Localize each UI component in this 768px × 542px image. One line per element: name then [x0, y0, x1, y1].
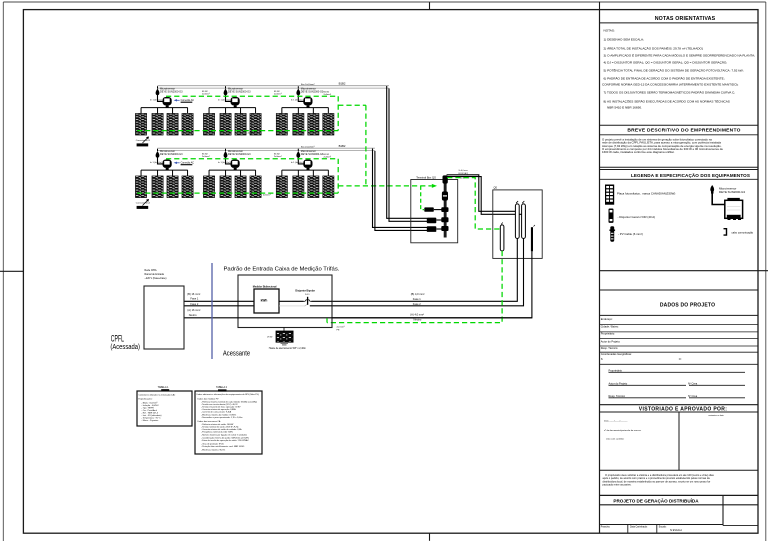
green riser row 2	[337, 159, 339, 193]
PE green wire QD to meter	[327, 251, 502, 323]
svg-text:1600 W cada, instalados confor: 1600 W cada, instalados conforme este di…	[602, 150, 675, 154]
string green PE line row 1 (inverter level)	[166, 95, 338, 97]
PV group A2 (modules M5-M8 + microinverter INV-2)	[203, 86, 261, 135]
PV group B1 (modules M13-M16 + microinverter INV-4)	[135, 149, 193, 198]
kWh meter box	[254, 289, 279, 313]
section divider / fold line	[600, 270, 768, 272]
phase wires meter to kWh	[184, 300, 254, 302]
BREVE DESCRITIVO section	[600, 124, 759, 126]
svg-text:Nº Crea: Nº Crea	[688, 394, 698, 398]
svg-text:- Dimensões e peso aproximado: - Dimensões e peso aproximado: 1,70 x 1,…	[201, 416, 243, 419]
svg-text:CPFL: CPFL	[111, 333, 124, 343]
disclaimer paragraph	[603, 473, 715, 487]
svg-text:- Faixa de tensão de operação: - Faixa de tensão de operação da saída: …	[201, 439, 249, 442]
svg-text:- Corrente de curto-circuito:: - Corrente de curto-circuito: 9,45A	[201, 410, 232, 413]
svg-text:Haste de aterramento 5/8" x 2,: Haste de aterramento 5/8" x 2,40m	[269, 347, 306, 350]
service entrance labels	[145, 269, 167, 280]
svg-text:2x 6,0 mm²: 2x 6,0 mm²	[459, 169, 469, 172]
svg-text:B1B2: B1B2	[339, 82, 346, 86]
legend cable icon	[609, 226, 615, 241]
svg-text:Placa fotovoltaica , marca CAN: Placa fotovoltaica , marca CANADIAN(330W…	[617, 192, 675, 196]
green PE link terminal box to QD	[447, 178, 500, 229]
svg-text:TABELA 2: TABELA 2	[216, 386, 228, 389]
svg-text:Conexão AC: Conexão AC	[181, 162, 195, 165]
QD box outline	[493, 190, 542, 259]
NOTAS header band	[600, 22, 759, 24]
svg-text:assinatura e data: assinatura e data	[708, 414, 724, 417]
string green PE line row 2 (module level)	[137, 192, 338, 194]
svg-text:Resp. Técnico: Resp. Técnico	[609, 394, 626, 398]
svg-text:(B) 4,0 mm²: (B) 4,0 mm²	[411, 292, 425, 296]
neutral bar	[531, 227, 533, 251]
svg-text:Data Carimbada:: Data Carimbada:	[630, 525, 648, 528]
meter box outline	[238, 275, 332, 328]
svg-text:Prancha:: Prancha:	[601, 525, 611, 528]
neutral wire through meter	[184, 317, 532, 319]
svg-text:Dados dos módulos FV:: Dados dos módulos FV:	[198, 398, 220, 400]
svg-text:2x4mm²: 2x4mm²	[274, 93, 282, 96]
svg-text:Bus 2x4,0mm²: Bus 2x4,0mm²	[301, 83, 315, 86]
table 2 box	[195, 391, 262, 454]
phase 1 wire QD to meter	[332, 239, 517, 302]
phase wires breaker to box edge	[312, 300, 333, 302]
svg-text:DJ-1: DJ-1	[305, 294, 310, 296]
svg-text:Cidade / Bairro:: Cidade / Bairro:	[601, 325, 619, 329]
svg-text:(A) 16 mm²: (A) 16 mm²	[187, 308, 200, 312]
svg-text:Data ____/____/______: Data ____/____/______	[604, 420, 628, 423]
svg-text:nº do documento/protocolo do a: nº do documento/protocolo do acesso:	[604, 429, 642, 432]
svg-text:BREVE DESCRITIVO DO EMPREENDIM: BREVE DESCRITIVO DO EMPREENDIMENTO	[627, 127, 740, 133]
table 1 box	[137, 391, 192, 426]
bottom cells	[600, 524, 724, 526]
svg-text:7) TODOS OS DISJUNTORES SERÃO: 7) TODOS OS DISJUNTORES SERÃO TERMOMAGNÉ…	[604, 90, 736, 95]
svg-text:cabo comunicação: cabo comunicação	[732, 230, 754, 234]
svg-text:5) POTÊNCIA TOTAL FINAL DE GER: 5) POTÊNCIA TOTAL FINAL DE GERAÇÃO DO SI…	[604, 68, 744, 73]
svg-text:DEYE SUN2000-G3: DEYE SUN2000-G3	[719, 190, 745, 194]
svg-text:Resp. Técnico:: Resp. Técnico:	[601, 346, 619, 350]
svg-text:NBR 5410 E NBR 16690.: NBR 5410 E NBR 16690.	[607, 106, 642, 110]
svg-text:Neutro: Neutro	[189, 313, 197, 317]
property boundary	[211, 263, 213, 359]
svg-text:Proprietário:: Proprietário:	[601, 332, 615, 336]
svg-text:NOTAS ORIENTATIVAS: NOTAS ORIENTATIVAS	[655, 16, 716, 22]
LEGENDA section	[600, 166, 759, 168]
svg-text:kWh: kWh	[261, 299, 268, 303]
svg-text:Dados dos inversores CA:: Dados dos inversores CA:	[198, 420, 222, 423]
svg-text:Padrão de Entrada Caixa de Med: Padrão de Entrada Caixa de Medição Trifá…	[224, 266, 340, 272]
green feeder to terminal box	[338, 185, 432, 187]
svg-text:Condutores utilizados na insta: Condutores utilizados na instalação (CA)…	[139, 393, 176, 396]
blue pointer to INV-1	[176, 99, 180, 101]
busbar top connector	[443, 175, 448, 183]
svg-text:Disjuntor Bipolar: Disjuntor Bipolar	[295, 290, 314, 293]
svg-text:Especificações:: Especificações:	[139, 397, 153, 400]
busbar	[444, 177, 447, 238]
fold mark bottom center	[429, 533, 431, 541]
PV group A1 (modules M1-M4 + microinverter INV-1)	[135, 86, 193, 135]
breaker DJ-1 contacts	[304, 299, 307, 301]
terminal box outline	[411, 180, 458, 243]
AC bus row 1 (B1,B2)	[158, 85, 389, 87]
fold mark top at title block	[599, 2, 601, 10]
svg-text:PROJETO DE GERAÇÃO DISTRIBUÍDA: PROJETO DE GERAÇÃO DISTRIBUÍDA	[613, 497, 699, 504]
svg-text:Fase 2: Fase 2	[413, 302, 421, 306]
svg-text:8) AS INSTALAÇÕES SERÃO EXECUT: 8) AS INSTALAÇÕES SERÃO EXECUTADAS DE AC…	[604, 99, 730, 104]
svg-text:(B) 16 mm²: (B) 16 mm²	[187, 292, 200, 296]
svg-text:Terminal Box QG: Terminal Box QG	[416, 175, 436, 179]
breaker pole 1	[515, 204, 519, 239]
busbar fuse	[442, 191, 448, 200]
svg-text:4x6mm²: 4x6mm²	[263, 193, 271, 196]
svg-text:2x4mm²: 2x4mm²	[202, 93, 210, 96]
neutral wire QD to meter	[332, 251, 532, 317]
svg-text:6) PADRÃO DE ENTRADA DE ACORDO: 6) PADRÃO DE ENTRADA DE ACORDO COM O PAD…	[604, 76, 725, 81]
VISTORIADO band	[600, 404, 759, 406]
svg-text:~220 V (Fase+Fase): ~220 V (Fase+Fase)	[145, 277, 167, 280]
legend comm cable item	[724, 229, 727, 235]
svg-text:O:: O:	[679, 357, 682, 361]
PE plug connector	[424, 207, 434, 211]
svg-text:Rede CPFL: Rede CPFL	[145, 269, 158, 272]
svg-text:- Número máximo por ligação e: - Número máximo por ligação em ramal: 6 …	[201, 433, 247, 436]
svg-text:(A) 4,0 mm²: (A) 4,0 mm²	[410, 312, 424, 316]
breaker pole 2	[522, 204, 526, 239]
svg-text:- Disjuntor Geral c/ DR (40 A): - Disjuntor Geral c/ DR (40 A)	[618, 215, 656, 219]
svg-text:Conector MC4: Conector MC4	[136, 201, 151, 204]
svg-text:B1 B2 (AC): B1 B2 (AC)	[459, 172, 469, 175]
string green PE line row 1 (module level)	[137, 130, 338, 132]
row2 plug connector	[427, 226, 437, 232]
svg-text:Endereço:: Endereço:	[601, 317, 613, 321]
service entrance box	[144, 286, 184, 349]
ground lead	[283, 328, 285, 332]
legend microinverter drawing	[710, 185, 745, 220]
svg-text:Ø 3/4": Ø 3/4"	[267, 337, 273, 339]
row1 plug connector	[427, 218, 437, 224]
svg-text:2x4mm²: 2x4mm²	[202, 155, 210, 158]
svg-text:1) DESENHO SEM ESCALA;: 1) DESENHO SEM ESCALA;	[604, 37, 645, 41]
svg-text:2) ÁREA TOTAL DE INSTALAÇÃO DO: 2) ÁREA TOTAL DE INSTALAÇÃO DOS PAINÉIS:…	[604, 46, 703, 51]
phase 1 wire kWh to breaker	[279, 300, 304, 302]
phase 2 wire QD to meter	[332, 239, 524, 306]
svg-text:Autor do Projeto: Autor do Projeto	[609, 381, 628, 385]
svg-text:Fase 2: Fase 2	[190, 302, 198, 306]
PROJETO title band	[600, 494, 759, 496]
svg-text:Acessante: Acessante	[223, 349, 250, 358]
entrance wire tags	[187, 292, 200, 317]
svg-text:4,0 mm²: 4,0 mm²	[337, 326, 345, 329]
AC bus row 2 (B1,B2)	[158, 147, 375, 149]
svg-text:Autor do Projeto:: Autor do Projeto:	[601, 340, 621, 344]
AC feeder out of terminal box	[447, 175, 516, 212]
svg-text:TABELA 1: TABELA 1	[158, 386, 170, 389]
svg-text:pactuado entre as partes.: pactuado entre as partes.	[603, 483, 632, 487]
svg-text:B1B2: B1B2	[339, 144, 346, 148]
svg-text:Conector MC4: Conector MC4	[136, 139, 151, 142]
notes text	[602, 28, 755, 109]
svg-text:Conexão AC: Conexão AC	[181, 99, 195, 102]
wire tags right of meter	[410, 292, 424, 321]
svg-text:S:: S:	[601, 357, 604, 361]
svg-text:visto com carimbo:: visto com carimbo:	[606, 438, 625, 441]
AC riser pair row 1	[387, 86, 427, 218]
svg-text:DADOS DO PROJETO: DADOS DO PROJETO	[660, 303, 715, 309]
svg-text:- Eficiência máxima: 96,5%: - Eficiência máxima: 96,5%	[201, 449, 225, 451]
svg-text:4x6mm²: 4x6mm²	[248, 131, 256, 134]
svg-text:- PV Cable (6 mm²): - PV Cable (6 mm²)	[618, 232, 643, 236]
svg-text:3) O AMPLIFICADO É DIFERENTE P: 3) O AMPLIFICADO É DIFERENTE PARA CADA M…	[604, 53, 756, 58]
svg-text:4) DJ = DISJUNTOR GERAL; QG =: 4) DJ = DISJUNTOR GERAL; QG = DISJUNTOR …	[604, 59, 728, 64]
svg-text:Nº Crea: Nº Crea	[688, 381, 698, 385]
green feeder riser	[365, 105, 367, 186]
svg-text:Fase 1: Fase 1	[190, 297, 198, 301]
green arrowhead at terminal box	[432, 184, 437, 188]
legend breaker icon	[609, 209, 614, 223]
blue pointer to INV-4	[176, 162, 180, 164]
svg-text:LEGENDA E ESPECIFICAÇÃO DOS EQ: LEGENDA E ESPECIFICAÇÃO DOS EQUIPAMENTOS	[631, 172, 750, 178]
string green PE line row 2 (inverter level)	[166, 158, 338, 160]
svg-text:- Marca : Prysmian: - Marca : Prysmian	[142, 420, 159, 422]
svg-text:S/ ESCALA: S/ ESCALA	[670, 529, 682, 532]
svg-text:CONFORME NORMA GED-13 DA CONCE: CONFORME NORMA GED-13 DA CONCESSIONÁRIA …	[602, 83, 739, 87]
PV group B3 (modules M21-M24 + microinverter INV-6)	[276, 149, 334, 198]
green riser row 1	[337, 96, 339, 130]
svg-text:- Proteção fator anti-ilhamen: - Proteção fator anti-ilhamento: conf. N…	[201, 445, 245, 448]
PE pickup	[326, 318, 328, 322]
svg-text:Medidor Bidirecional: Medidor Bidirecional	[253, 285, 277, 288]
svg-text:QD: QD	[494, 187, 498, 190]
svg-text:Dados adicionais e informações: Dados adicionais e informações dos equip…	[197, 393, 260, 396]
svg-text:Fase 1: Fase 1	[413, 297, 421, 301]
AC riser pair row 2	[373, 149, 428, 228]
ground inspection box	[276, 331, 293, 342]
page edge left	[2, 2, 4, 541]
legend PV module icon	[605, 185, 614, 205]
svg-text:Proprietário: Proprietário	[609, 368, 623, 372]
page edge top	[3, 1, 766, 3]
fold mark left	[0, 270, 23, 272]
green jog row1 to feeder	[338, 104, 366, 106]
svg-text:Bus 2x4,0mm²: Bus 2x4,0mm²	[301, 145, 315, 148]
svg-text:Ramal de Entrada: Ramal de Entrada	[145, 273, 165, 276]
PV group B2 (modules M17-M20 + microinverter INV-5)	[203, 149, 261, 198]
svg-text:Coordenadas Geográficas:: Coordenadas Geográficas:	[601, 352, 632, 356]
svg-text:NOTAS:: NOTAS:	[604, 28, 615, 32]
page edge right	[765, 2, 767, 541]
signature area	[609, 368, 698, 398]
svg-text:2x4mm²: 2x4mm²	[274, 155, 282, 158]
phase 2 sense lead (thin)	[279, 305, 304, 307]
PE pole	[500, 225, 504, 251]
svg-text:(Acessada): (Acessada)	[110, 344, 140, 351]
fold mark top center	[429, 2, 431, 9]
title block divider	[599, 10, 601, 534]
PV group A3 (modules M9-M12 + microinverter INV-3)	[276, 86, 334, 135]
svg-text:Escala:: Escala:	[659, 526, 667, 528]
green jumper inside box	[421, 186, 424, 210]
svg-text:- Frequência nominal da rede:: - Frequência nominal da rede: 60Hz	[201, 431, 233, 433]
